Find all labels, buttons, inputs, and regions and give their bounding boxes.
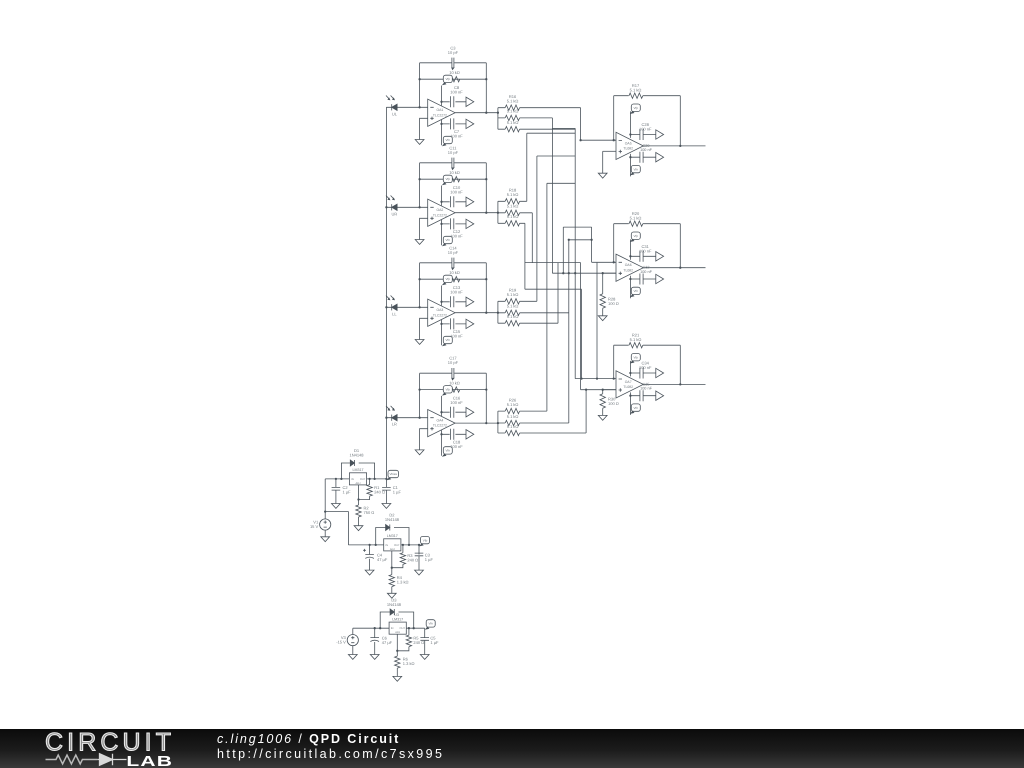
net flag Vfp (supply label)	[442, 75, 452, 85]
wire Vdd pin	[629, 361, 631, 377]
junction	[440, 301, 442, 303]
net flag Vfn	[425, 620, 435, 630]
wire lower bypass	[442, 323, 467, 325]
capacitor C4 47 uF	[365, 555, 374, 559]
regulator U1 LM317	[349, 468, 366, 485]
label leader arrow for C14	[451, 268, 454, 271]
ground	[598, 415, 607, 420]
junction	[497, 312, 499, 314]
net flag Vfn (supply label)	[630, 404, 640, 414]
svg-text:10 pF: 10 pF	[448, 150, 459, 155]
capacitor C8 100 nF	[451, 96, 454, 107]
wire resistor row	[498, 212, 532, 214]
wire Vss pin	[629, 276, 631, 299]
wire branch to regulator 2	[325, 512, 348, 545]
junction	[613, 377, 615, 379]
resistor R18b 5.1 k&#937;	[505, 210, 519, 215]
capacitor C18 100 nF	[451, 429, 454, 440]
svg-text:100 nF: 100 nF	[640, 387, 653, 391]
resistor R8 10 k&#937;	[446, 177, 460, 182]
svg-text:5.1 kΩ: 5.1 kΩ	[507, 214, 519, 219]
junction	[568, 272, 570, 274]
wire bus horizontal	[569, 239, 592, 241]
net flag (lower supply)	[656, 274, 664, 283]
ground	[348, 655, 357, 660]
wire feedback resistor branch	[420, 78, 487, 80]
capacitor C2 1 uF	[332, 487, 341, 490]
junction	[485, 112, 487, 114]
wire output	[455, 312, 498, 314]
wire Vss pin	[629, 154, 631, 177]
resistor R26b 5.1 k&#937;	[505, 420, 519, 425]
wire bus vertical	[536, 156, 538, 301]
ground	[415, 570, 424, 575]
wire Vss pin	[629, 392, 631, 415]
junction	[418, 417, 420, 419]
junction	[590, 239, 592, 241]
svg-text:Vfp: Vfp	[634, 355, 639, 359]
junction	[629, 156, 631, 158]
svg-text:10 kΩ: 10 kΩ	[449, 170, 460, 175]
wire sum1 inverting feed	[581, 139, 616, 141]
wire output	[455, 422, 498, 424]
net flag (lower supply)	[466, 319, 474, 328]
wire upper bypass	[442, 301, 467, 303]
voltage source V3 -15 V	[336, 635, 358, 646]
svg-text:OA2: OA2	[437, 208, 444, 212]
resistor R19b 5.1 k&#937;	[505, 310, 519, 315]
net flag (lower supply)	[656, 391, 664, 400]
svg-text:1.3 kΩ: 1.3 kΩ	[397, 579, 409, 584]
svg-text:100 Ω: 100 Ω	[608, 401, 619, 406]
ground	[598, 173, 607, 178]
wire V3	[352, 628, 354, 654]
junction	[562, 272, 564, 274]
capacitor C11 (10 pF)	[452, 158, 454, 168]
wire fork vertical	[497, 411, 499, 433]
wire feedback left	[419, 373, 421, 418]
svg-text:R16: R16	[509, 94, 517, 99]
junction	[629, 372, 631, 374]
svg-text:U3: U3	[394, 613, 399, 617]
wire R4 to ground	[391, 568, 393, 594]
wire C3	[418, 545, 420, 570]
voltage source V1 15 V	[310, 519, 331, 530]
svg-text:OUT: OUT	[394, 544, 400, 547]
net flag Vfp (supply label)	[442, 275, 452, 285]
svg-text:LR: LR	[392, 422, 397, 427]
junction	[629, 255, 631, 257]
svg-text:OA3: OA3	[437, 308, 444, 312]
resistor R21 5.1 k&#937;	[629, 343, 643, 348]
junction	[418, 178, 420, 180]
svg-text:100 Ω: 100 Ω	[608, 301, 619, 306]
svg-text:R18: R18	[509, 188, 517, 193]
wire non-inverting to ground	[420, 318, 428, 339]
wire bus horizontal	[525, 288, 582, 290]
svg-text:TLC2272: TLC2272	[433, 113, 447, 117]
wire feedback right	[485, 63, 487, 113]
net flag Vfp (supply label)	[442, 175, 452, 185]
svg-text:750 Ω: 750 Ω	[364, 510, 375, 515]
junction	[324, 510, 326, 512]
wire feedback left	[419, 163, 421, 208]
svg-text:1 µF: 1 µF	[430, 640, 439, 645]
wire bus vertical	[574, 128, 576, 378]
svg-text:Vfn: Vfn	[634, 289, 639, 293]
resistor R20 5.1 k&#937;	[629, 221, 643, 226]
net flag Vfn (supply label)	[630, 165, 640, 175]
junction	[396, 650, 398, 652]
wire resistor row	[498, 128, 575, 130]
wire R6 to ground	[396, 651, 398, 677]
wire non-inverting to ground	[420, 218, 428, 239]
wire D2 loop	[376, 528, 409, 545]
svg-text:5.1 kΩ: 5.1 kΩ	[507, 109, 519, 114]
wire feedback resistor branch	[420, 178, 487, 180]
svg-text:5.1 kΩ: 5.1 kΩ	[507, 414, 519, 419]
wire bus vertical	[526, 133, 528, 201]
svg-text:OUT: OUT	[400, 627, 406, 630]
resistor R2 750 &#937;	[356, 505, 361, 517]
net flag Vbias	[387, 470, 399, 480]
junction	[629, 278, 631, 280]
wire resistor row	[498, 222, 525, 224]
wire upper bypass	[630, 134, 655, 136]
svg-text:TLC2272: TLC2272	[433, 313, 447, 317]
wire rail out	[406, 627, 424, 629]
svg-text:100 nF: 100 nF	[639, 365, 652, 370]
wire bus vertical	[551, 118, 553, 273]
wire bias bus vertical	[385, 107, 387, 479]
capacitor C32 100 nF	[640, 274, 643, 285]
junction	[579, 139, 581, 141]
wire sum2 inverting feed	[592, 261, 616, 263]
wire rail in	[353, 627, 389, 629]
wire feedback top	[420, 372, 487, 374]
wire feedback right	[679, 345, 681, 384]
wire bus vertical	[596, 263, 598, 379]
net flag (upper supply)	[466, 297, 474, 306]
photodiode UR	[386, 196, 397, 217]
junction	[374, 627, 376, 629]
svg-text:1N4148: 1N4148	[349, 453, 364, 458]
op-amp OA6	[616, 254, 643, 281]
resistor symbol (logo)	[46, 755, 98, 764]
wire upper bypass	[442, 201, 467, 203]
resistor R18c 5.1 k&#937;	[505, 221, 519, 226]
capacitor C13 100 nF	[451, 296, 454, 307]
junction	[440, 101, 442, 103]
capacitor C34 100 nF	[640, 368, 643, 379]
net flag Vfn (supply label)	[442, 447, 452, 457]
svg-text:Vfn: Vfn	[428, 622, 433, 626]
wire feedback left	[613, 96, 615, 141]
wire feedback right	[485, 263, 487, 313]
svg-text:OA1: OA1	[437, 108, 444, 112]
svg-text:15 V: 15 V	[310, 524, 319, 529]
svg-text:Vfn: Vfn	[634, 406, 639, 410]
wire upper bypass	[442, 411, 467, 413]
junction	[679, 383, 681, 385]
junction	[497, 212, 499, 214]
wire fork vertical	[497, 108, 499, 130]
svg-text:100 nF: 100 nF	[450, 290, 463, 295]
svg-text:Vfp: Vfp	[446, 388, 451, 392]
wire feedback top	[614, 95, 681, 97]
net flag Vfp (supply label)	[630, 354, 640, 364]
net flag Vfn (supply label)	[630, 287, 640, 297]
footer bar	[0, 729, 1024, 768]
wire bus vertical	[531, 213, 533, 263]
wire Vss pin	[441, 320, 443, 345]
wire Vdd pin	[629, 111, 631, 137]
capacitor C12 100 nF	[451, 218, 454, 229]
net flag (lower supply)	[656, 153, 664, 162]
resistor R18a 5.1 k&#937;	[505, 199, 519, 204]
wire photodiode to inverting input	[386, 417, 427, 419]
junction	[568, 239, 570, 241]
svg-text:1N4148: 1N4148	[385, 517, 400, 522]
net flag (upper supply)	[656, 252, 664, 261]
wire photodiode to inverting input	[386, 206, 427, 208]
wire upper bypass	[630, 372, 655, 374]
wire output	[643, 383, 705, 385]
wire resistor row	[498, 322, 558, 324]
svg-text:LL: LL	[392, 311, 397, 316]
wire Vdd pin	[441, 396, 443, 416]
wire output	[455, 212, 498, 214]
junction	[440, 123, 442, 125]
svg-text:ADJ: ADJ	[390, 548, 396, 551]
junction	[440, 223, 442, 225]
wire feedback right	[679, 224, 681, 268]
svg-text:TL082: TL082	[623, 385, 633, 389]
svg-text:OUT: OUT	[360, 478, 366, 481]
svg-text:LM317: LM317	[392, 617, 403, 621]
svg-text:5.1 kΩ: 5.1 kΩ	[507, 204, 519, 209]
wire feedback right	[485, 163, 487, 213]
wire resistor row	[498, 422, 569, 424]
wire Vss pin	[441, 120, 443, 145]
junction	[596, 377, 598, 379]
junction	[413, 627, 415, 629]
resistor R28 100 &#937;	[600, 294, 605, 308]
wire R5/ADJ	[397, 628, 409, 651]
junction	[440, 433, 442, 435]
regulator U2 LM317	[384, 534, 401, 551]
wire feedback top	[614, 344, 681, 346]
capacitor C6 47 uF	[370, 638, 379, 642]
resistor R19c 5.1 k&#937;	[505, 321, 519, 326]
junction	[418, 306, 420, 308]
wire Vdd pin	[441, 286, 443, 306]
wire R3/ADJ	[392, 545, 403, 568]
junction	[679, 145, 681, 147]
svg-text:LM317: LM317	[353, 468, 364, 472]
capacitor C28 100 nF	[640, 129, 643, 140]
junction	[485, 78, 487, 80]
wire feedback right	[679, 96, 681, 146]
resistor R6 1.3 kOhm	[395, 656, 400, 668]
svg-text:UL: UL	[392, 111, 398, 116]
svg-text:10 pF: 10 pF	[448, 360, 459, 365]
junction	[385, 478, 387, 480]
capacitor C14 (10 pF)	[452, 258, 454, 268]
capacitor C31 100 nF	[640, 251, 643, 262]
wire bus horizontal	[563, 226, 591, 228]
net flag Vfn (supply label)	[442, 236, 452, 246]
junction	[485, 422, 487, 424]
resistor R10 10 k&#937;	[446, 387, 460, 392]
wire D3 loop	[380, 612, 414, 628]
wire resistor row	[498, 432, 586, 434]
net flag (upper supply)	[656, 130, 664, 139]
wire non-inverting	[603, 272, 616, 274]
svg-text:Vfp: Vfp	[446, 277, 451, 281]
svg-text:5.1 kΩ: 5.1 kΩ	[507, 304, 519, 309]
svg-text:OA7: OA7	[625, 380, 632, 384]
svg-text:5.1 kΩ: 5.1 kΩ	[507, 424, 519, 429]
svg-text:ADJ: ADJ	[395, 631, 401, 634]
wire bus vertical	[546, 183, 548, 411]
wire to shunt resistor	[602, 273, 604, 316]
wire non-inverting	[603, 389, 616, 391]
svg-text:10 kΩ: 10 kΩ	[449, 270, 460, 275]
junction	[629, 133, 631, 135]
svg-text:100 nF: 100 nF	[639, 127, 652, 132]
svg-text:10 pF: 10 pF	[448, 50, 459, 55]
capacitor C3 1 uF	[415, 553, 424, 556]
wire Vdd pin	[441, 186, 443, 206]
wire Vdd pin	[629, 239, 631, 259]
svg-text:5.1 kΩ: 5.1 kΩ	[507, 402, 519, 407]
junction	[418, 388, 420, 390]
url text	[217, 747, 444, 761]
wire rail in	[348, 544, 383, 546]
wire resistor row	[498, 312, 569, 314]
svg-text:100 nF: 100 nF	[640, 270, 653, 274]
net flag (lower supply)	[466, 119, 474, 128]
resistor R26a 5.1 k&#937;	[505, 408, 519, 413]
junction	[418, 106, 420, 108]
wire Vss pin	[441, 220, 443, 245]
label leader arrow for C3	[451, 68, 454, 71]
junction	[375, 544, 377, 546]
junction	[440, 411, 442, 413]
wire bus vertical	[591, 227, 593, 262]
resistor R3 240 &#937;	[400, 553, 405, 565]
photodiode UL	[386, 96, 398, 117]
wire bus vertical	[580, 108, 582, 141]
wire to ground	[602, 151, 604, 173]
net flag Vfn (supply label)	[442, 136, 452, 146]
wire rail out	[401, 544, 419, 546]
title text	[217, 732, 400, 746]
resistor R16a 5.1 k&#937;	[505, 105, 519, 110]
svg-text:10 pF: 10 pF	[448, 250, 459, 255]
wire lower bypass	[630, 156, 655, 158]
wire feedback resistor branch	[420, 389, 487, 391]
resistor R19a 5.1 k&#937;	[505, 299, 519, 304]
wire sum3 inverting feed	[575, 378, 616, 380]
svg-text:1.3 kΩ: 1.3 kΩ	[403, 661, 415, 666]
wire photodiode to inverting input	[386, 106, 427, 108]
ground	[415, 340, 424, 345]
svg-text:1 µF: 1 µF	[425, 557, 434, 562]
resistor R30 100 &#937;	[600, 394, 605, 408]
junction	[613, 261, 615, 263]
wire to shunt resistor	[602, 390, 604, 416]
svg-text:Vfn: Vfn	[446, 138, 451, 142]
svg-text:Vfn: Vfn	[634, 167, 639, 171]
junction	[440, 323, 442, 325]
resistor R1 240 &#937;	[367, 485, 372, 497]
svg-text:5.1 kΩ: 5.1 kΩ	[507, 292, 519, 297]
resistor R16c 5.1 k&#937;	[505, 126, 519, 131]
wire bus vertical	[585, 390, 587, 433]
svg-text:TLC2272: TLC2272	[433, 424, 447, 428]
junction	[613, 139, 615, 141]
wire fork vertical	[497, 201, 499, 223]
ground	[382, 504, 391, 509]
ground	[332, 504, 341, 509]
label leader arrow for C17	[451, 378, 454, 381]
wire feedback left	[613, 224, 615, 263]
junction	[418, 544, 420, 546]
wire lower bypass	[442, 123, 467, 125]
svg-text:10 kΩ: 10 kΩ	[449, 70, 460, 75]
wire C6	[374, 628, 376, 654]
junction	[335, 478, 337, 480]
wire lower bypass	[630, 395, 655, 397]
diode D3 1N4148	[390, 609, 394, 615]
ground	[415, 140, 424, 145]
wire bus vertical	[581, 289, 583, 378]
wire bus vertical	[557, 263, 559, 324]
wire R1/ADJ	[359, 479, 370, 500]
svg-text:47 µF: 47 µF	[382, 640, 393, 645]
junction	[574, 272, 576, 274]
svg-text:1 µF: 1 µF	[343, 489, 352, 494]
svg-text:UR: UR	[392, 211, 398, 216]
junction	[440, 201, 442, 203]
svg-text:Vfp: Vfp	[634, 106, 639, 110]
svg-text:10 kΩ: 10 kΩ	[449, 380, 460, 385]
svg-text:OA6: OA6	[625, 263, 632, 267]
svg-text:1 µF: 1 µF	[393, 489, 402, 494]
capacitor C5 1 uF	[420, 638, 429, 641]
wire rail out	[367, 478, 387, 480]
wire bus vertical	[524, 223, 526, 289]
net flag Vfp	[419, 536, 429, 546]
wire feedback left	[419, 63, 421, 108]
resistor R4 1.3 kOhm	[389, 575, 394, 587]
ground	[598, 316, 607, 321]
wire Vss pin	[441, 430, 443, 455]
svg-text:5.1 kΩ: 5.1 kΩ	[507, 192, 519, 197]
junction	[580, 377, 582, 379]
wire resistor row	[498, 117, 553, 119]
wire bus horizontal	[527, 132, 575, 134]
svg-text:IN: IN	[351, 478, 354, 481]
junction	[485, 178, 487, 180]
photodiode LL	[386, 296, 397, 317]
wire resistor row	[498, 107, 581, 109]
svg-text:5.1 kΩ: 5.1 kΩ	[507, 99, 519, 104]
svg-text:Vfn: Vfn	[446, 338, 451, 342]
capacitor C16 100 nF	[451, 407, 454, 418]
